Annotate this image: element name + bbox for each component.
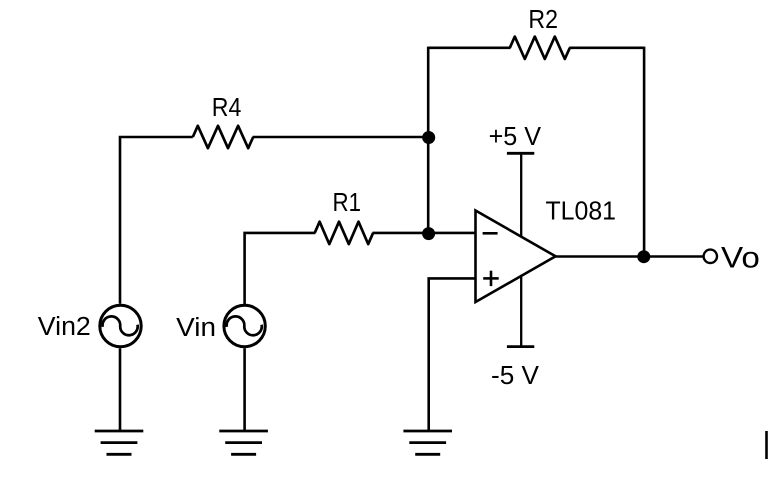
terminal Vo open circle [704, 250, 717, 263]
wire Vin2 to ground [119, 348, 122, 431]
svg-text:Vin: Vin [176, 314, 216, 342]
plus symbol non-inverting input [483, 271, 499, 286]
wire R4 left lead with corner [120, 137, 193, 304]
ground Vin [219, 431, 268, 454]
stray vertical mark bottom right [765, 431, 768, 459]
resistor R2 [510, 37, 570, 59]
junction node output [637, 250, 650, 263]
svg-text:R4: R4 [212, 92, 242, 122]
svg-text:TL081: TL081 [546, 195, 617, 225]
resistor R4 [193, 126, 253, 148]
svg-text:+5 V: +5 V [489, 121, 542, 151]
wire Vin to ground [243, 348, 246, 431]
wire R1 right lead [373, 232, 429, 235]
supply +5V bar [507, 153, 534, 237]
source Vin2 [100, 305, 141, 346]
svg-text:Vo: Vo [721, 241, 760, 274]
op-amp U1 TL081 [476, 211, 556, 303]
svg-text:R1: R1 [333, 187, 362, 217]
svg-text:R2: R2 [528, 4, 558, 34]
wire inverting input stub [428, 232, 475, 235]
wire R4 right lead [253, 136, 429, 139]
ground op-amp non-inverting [403, 431, 452, 454]
wire top feedback left lead [428, 46, 510, 49]
wire non-inverting input stub with corner [429, 278, 476, 431]
ground Vin2 [95, 431, 144, 454]
wire right feedback vertical [643, 47, 646, 257]
source Vin [224, 305, 265, 346]
svg-text:Vin2: Vin2 [38, 313, 91, 341]
junction node R4/feedback [422, 131, 435, 144]
resistor R1 [315, 222, 373, 244]
wire R1 left lead with corner [245, 233, 316, 304]
wire top feedback right lead [569, 46, 644, 49]
minus symbol inverting input [483, 232, 498, 235]
wire output to terminal [644, 255, 704, 258]
svg-text:-5 V: -5 V [491, 360, 540, 390]
supply -5V bar [507, 275, 534, 347]
junction node inverting input [422, 227, 435, 240]
wire op-amp output [556, 255, 645, 258]
wire left feedback vertical [427, 47, 430, 233]
